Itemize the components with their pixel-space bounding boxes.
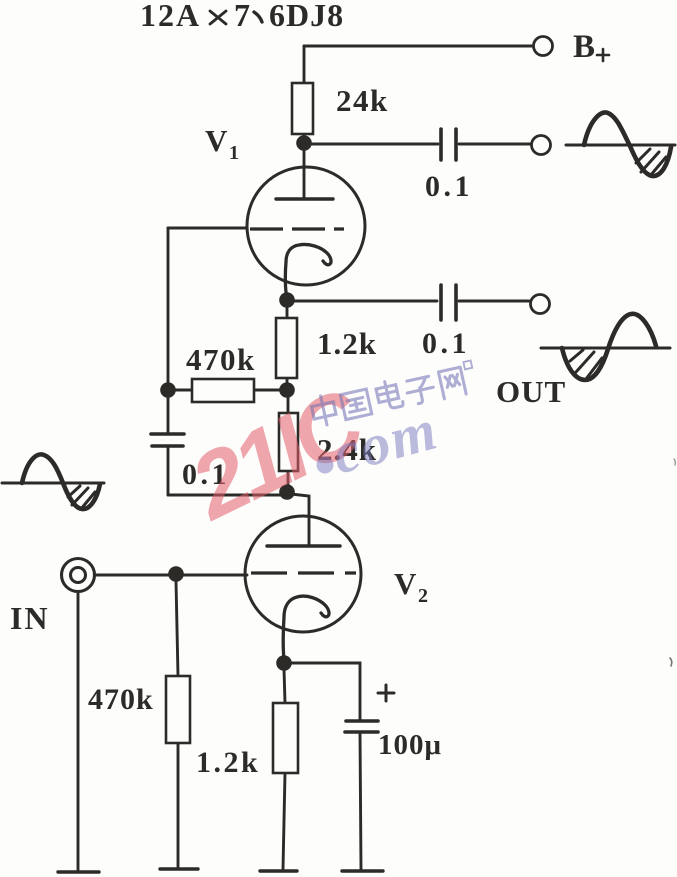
wire node D to C3 bbox=[167, 396, 170, 433]
terminal IN inner circle bbox=[71, 568, 86, 583]
wire R4 to node E bbox=[287, 471, 290, 487]
char dian bbox=[375, 379, 404, 411]
terminal B+ circle bbox=[534, 37, 553, 56]
char zi bbox=[405, 376, 436, 406]
svg-text:0.1: 0.1 bbox=[422, 327, 470, 360]
wire node B to C2 bbox=[288, 300, 437, 303]
node E junction bbox=[279, 484, 295, 500]
label V2 bbox=[394, 566, 428, 607]
capacitor C3 0.1 bbox=[151, 434, 184, 446]
svg-text:0.1: 0.1 bbox=[425, 170, 473, 203]
wire R2 to node C bbox=[286, 378, 289, 384]
node C junction bbox=[279, 382, 295, 398]
svg-text:100μ: 100μ bbox=[378, 729, 442, 761]
tube V2 envelope bbox=[245, 516, 361, 632]
wire left rail vertical bbox=[167, 228, 170, 383]
resistor R2 1.2k body bbox=[276, 318, 297, 378]
svg-text:470k: 470k bbox=[88, 683, 154, 716]
node D junction bbox=[160, 382, 176, 398]
tube V1 grid bbox=[250, 227, 344, 230]
node F junction bbox=[276, 655, 292, 671]
wire node C to R4 bbox=[287, 396, 290, 413]
svg-text:12A: 12A bbox=[140, 0, 201, 33]
terminal output 1 circle bbox=[532, 136, 551, 155]
node B junction bbox=[279, 292, 295, 308]
ground 4 bbox=[342, 869, 383, 872]
label B+ bbox=[573, 29, 609, 65]
watermark Chinese characters bbox=[309, 360, 477, 427]
sine wave symbol OUT bbox=[541, 314, 670, 380]
char guo bbox=[340, 389, 371, 420]
svg-text:IN: IN bbox=[10, 600, 50, 636]
capacitor C1 0.1 bbox=[441, 129, 456, 160]
label V1 bbox=[205, 123, 239, 164]
wire node G to R5 bbox=[176, 581, 178, 676]
tube V1 cathode bbox=[285, 244, 331, 298]
label title 12A x 7, 6DJ8 bbox=[140, 0, 344, 33]
resistor R6 1.2k body bbox=[273, 703, 298, 773]
svg-text:7: 7 bbox=[234, 0, 250, 33]
wire R6 to ground bbox=[283, 773, 285, 869]
svg-text:1.2k: 1.2k bbox=[196, 746, 260, 779]
wire R1 bottom to V1 plate bbox=[303, 134, 306, 198]
ground 1 bbox=[58, 870, 99, 873]
wire node F to C4 bbox=[290, 663, 360, 720]
watermark com dot red bbox=[317, 457, 334, 474]
wire C3 to node E bbox=[168, 494, 283, 497]
wire node D to R3 bbox=[168, 389, 192, 392]
tube V1 plate bbox=[276, 197, 333, 200]
svg-text:V: V bbox=[205, 123, 228, 158]
terminal IN outer circle bbox=[62, 559, 95, 592]
wire V1 grid to left rail bbox=[168, 227, 247, 230]
stray scan mark right edge bbox=[670, 658, 672, 666]
tube V2 grid bbox=[251, 571, 356, 574]
watermark 21IC red bbox=[174, 369, 380, 540]
tube V2 plate bbox=[267, 544, 340, 547]
svg-text:V: V bbox=[394, 566, 417, 601]
capacitor C4 100u bbox=[345, 721, 378, 732]
node A junction bbox=[296, 135, 312, 151]
wire IN terminal down to ground bbox=[77, 592, 80, 870]
wire C2 to terminal bbox=[459, 300, 529, 303]
sine wave symbol top output bbox=[566, 112, 675, 176]
tube V1 envelope bbox=[247, 167, 365, 285]
tube V2 cathode bbox=[283, 596, 329, 660]
stray scan mark far right bbox=[674, 459, 675, 465]
wire C1 to terminal bbox=[459, 143, 530, 146]
wire node E to V2 plate bbox=[291, 494, 309, 545]
wire top of R1 bbox=[303, 46, 306, 83]
wire B+ rail bbox=[304, 45, 532, 48]
wire R3 to node C bbox=[254, 389, 287, 392]
wire node F to R6 bbox=[284, 669, 285, 703]
svg-text:OUT: OUT bbox=[496, 374, 566, 409]
svg-text:6DJ8: 6DJ8 bbox=[269, 0, 344, 33]
svg-text:24k: 24k bbox=[336, 83, 389, 118]
svg-text:B: B bbox=[573, 29, 595, 65]
wire node A to C1 bbox=[305, 143, 438, 146]
plus sign of C4 bbox=[378, 685, 394, 701]
char zhong bbox=[310, 394, 338, 428]
resistor R1 24k body bbox=[292, 83, 313, 134]
svg-text:2: 2 bbox=[418, 585, 428, 607]
capacitor C2 0.1 bbox=[441, 285, 456, 320]
wire C3 down bbox=[167, 447, 170, 495]
char wang bbox=[438, 367, 466, 399]
wire R5 to ground bbox=[177, 743, 180, 867]
svg-text:1: 1 bbox=[229, 142, 239, 164]
terminal output 2 circle bbox=[531, 295, 550, 314]
node G junction bbox=[168, 566, 184, 582]
wire C4 to ground bbox=[360, 733, 361, 869]
resistor R4 2.4k body bbox=[279, 413, 298, 471]
wire IN to V2 grid bbox=[95, 574, 247, 577]
resistor R5 470k body bbox=[166, 676, 190, 743]
svg-text:1.2k: 1.2k bbox=[317, 326, 377, 361]
superscript mark bbox=[463, 360, 472, 369]
wire node B to R2 bbox=[286, 306, 289, 318]
resistor R3 470k body bbox=[192, 379, 254, 402]
sine wave symbol input bbox=[2, 454, 104, 509]
watermark com blue bbox=[326, 396, 445, 486]
svg-text:470k: 470k bbox=[186, 342, 256, 377]
ground 2 bbox=[160, 867, 198, 870]
ground 3 bbox=[260, 869, 297, 872]
